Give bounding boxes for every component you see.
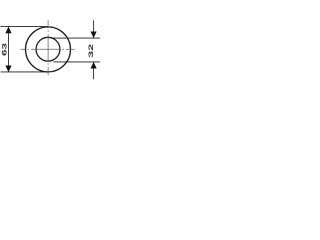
dimension line 32 lower outside segment (93, 62, 95, 79)
arrowhead 32 top (down) (91, 32, 97, 39)
vertical centerline (47, 20, 49, 75)
arrowhead 63 top (up) (5, 27, 11, 34)
extension line bottom (63, tangent outer circle bottom) (1, 71, 48, 73)
arrowhead 32 bottom (up) (91, 62, 97, 69)
extension line top (63, tangent outer circle top) (1, 26, 48, 28)
horizontal centerline (21, 48, 75, 50)
svg-text:32: 32 (88, 43, 95, 57)
dimension line 32 upper outside segment (93, 20, 95, 38)
outer circle (part outline, Ø63) (26, 27, 71, 72)
extension line top (32, tangent inner circle top) (53, 37, 100, 39)
dimension line 63 (8, 27, 10, 72)
extension line bottom (32, tangent inner circle bottom) (54, 61, 101, 63)
svg-text:63: 63 (1, 43, 9, 56)
inner circle (bore, Ø32) (36, 37, 60, 61)
arrowhead 63 bottom (down) (5, 66, 11, 73)
